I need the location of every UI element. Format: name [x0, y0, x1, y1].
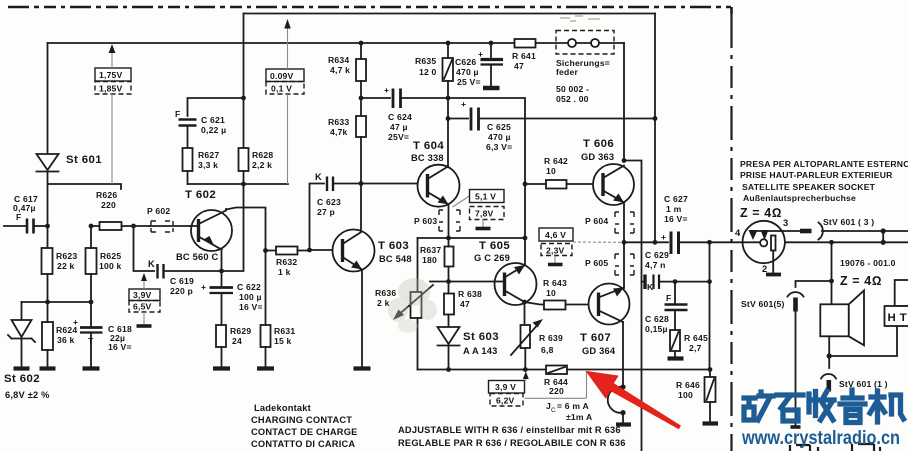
svg-text:R 643: R 643 [543, 278, 567, 288]
node: R642 tap on collector line [523, 182, 528, 187]
svg-text:BC 560 C: BC 560 C [176, 252, 219, 262]
svg-text:C 622: C 622 [237, 282, 261, 292]
svg-text:A A 143: A A 143 [463, 346, 497, 356]
svg-text:T 606: T 606 [583, 138, 614, 150]
ground loop [616, 422, 631, 426]
svg-text:0,1 V: 0,1 V [271, 84, 292, 94]
wire: St601 to measure node [48, 184, 122, 189]
chassis border top (dash-dot) [8, 7, 732, 14]
wire: output to right edge [785, 241, 908, 243]
node: C627 right junction [707, 240, 712, 245]
node: R635 bottom [446, 96, 451, 101]
wire: speaker to StV601(1) [828, 356, 830, 368]
socket Bu601 [743, 221, 785, 273]
svg-text:220 p: 220 p [170, 286, 193, 296]
wire: bottom rail y=369.5 [418, 369, 547, 371]
node: R634 bottom / C624 left [359, 96, 364, 101]
wire: T602 collector to R632 node [226, 208, 266, 251]
svg-text:+: + [461, 99, 466, 109]
wire: R627/R628 bottom rail [188, 183, 289, 185]
voltage box 0.09V / 0,1V [266, 19, 304, 184]
node: on T605 collector line [523, 236, 528, 241]
potentiometer R639 [511, 319, 543, 370]
scan noise top [560, 16, 600, 21]
resistor R633 [356, 98, 366, 184]
svg-text:G C 269: G C 269 [474, 253, 510, 263]
svg-text:R637: R637 [420, 245, 441, 255]
svg-text:27 p: 27 p [317, 207, 335, 217]
svg-text:F: F [175, 109, 180, 119]
plug StV601(3) [782, 223, 908, 240]
svg-text:2: 2 [762, 264, 767, 274]
node: St603 bottom on rail [446, 367, 451, 372]
capacitor C619 [148, 259, 222, 279]
node: T606 collector branch [622, 158, 627, 163]
ground socket pin2 [766, 273, 781, 277]
svg-text:16 V=: 16 V= [239, 302, 263, 312]
svg-text:Ladekontakt: Ladekontakt [254, 403, 311, 413]
wire: bias line y=302 [22, 301, 92, 303]
wire: P605 to T607 collector [623, 242, 625, 288]
svg-text:22 k: 22 k [57, 261, 75, 271]
svg-text:K: K [315, 172, 322, 182]
node: T605 emitter junction [522, 300, 527, 305]
resistor R644 [546, 366, 710, 375]
node: T602 emitter junction [219, 269, 224, 274]
node: R632 left junction [263, 248, 268, 253]
resistor R626 [91, 222, 150, 230]
svg-text:3: 3 [783, 218, 788, 228]
wire: C621 branch from node A drop [188, 98, 244, 116]
measure bracket for R644 [525, 371, 587, 398]
svg-text:H T: H T [888, 312, 908, 324]
ground R645 [668, 356, 684, 360]
svg-text:T 604: T 604 [413, 140, 444, 152]
svg-text:4,6 V: 4,6 V [545, 230, 566, 240]
svg-text:+: + [478, 49, 483, 59]
svg-text:R 646: R 646 [676, 380, 700, 390]
svg-text:7,8V: 7,8V [475, 209, 494, 219]
svg-text:180: 180 [422, 255, 437, 265]
svg-text:15 k: 15 k [274, 336, 292, 346]
svg-text:C 621: C 621 [201, 115, 225, 125]
wire: output line to C627 [624, 241, 668, 243]
svg-text:24: 24 [232, 336, 242, 346]
svg-text:0,22 µ: 0,22 µ [201, 125, 226, 135]
resistor R643 [525, 301, 600, 310]
svg-text:R626: R626 [96, 190, 117, 200]
node: emitter loop top [620, 384, 625, 389]
svg-text:GD 364: GD 364 [582, 346, 616, 356]
scan noise near R636 [388, 278, 437, 333]
svg-text:4,7 k: 4,7 k [330, 65, 350, 75]
wire: node A left drop to C621/R628 [243, 14, 245, 99]
svg-text:2,7: 2,7 [689, 343, 702, 353]
svg-text:StV 601 ( 3 ): StV 601 ( 3 ) [823, 217, 874, 227]
svg-text:1 k: 1 k [278, 267, 291, 277]
svg-text:+: + [384, 85, 389, 95]
svg-text:6,2V: 6,2V [496, 396, 515, 406]
node: R634 top on rail [359, 41, 364, 46]
svg-text:T: T [88, 336, 94, 346]
svg-text:C626: C626 [455, 57, 476, 67]
chassis border right (dash-dot) [730, 14, 732, 451]
svg-text:K: K [148, 259, 155, 269]
node: R623 bottom [45, 300, 50, 305]
svg-text:R 645: R 645 [684, 333, 708, 343]
svg-text:+: + [661, 232, 666, 242]
node: input/diode junction [45, 224, 50, 229]
svg-text:220: 220 [101, 200, 116, 210]
svg-text:470 µ: 470 µ [456, 67, 479, 77]
svg-text:±1m A: ±1m A [566, 412, 592, 422]
svg-text:St 602: St 602 [4, 373, 40, 385]
svg-text:C 628: C 628 [645, 314, 669, 324]
red annotation arrow [585, 371, 681, 430]
resistor R624 [42, 302, 53, 367]
ground R631 [257, 366, 274, 370]
capacitor C624 [361, 85, 448, 108]
fuse spring contacts (Sicherungsfeder) [556, 31, 624, 55]
svg-text:4,7k: 4,7k [330, 127, 348, 137]
svg-text:R633: R633 [328, 117, 349, 127]
wire: feedback stub from node A [654, 14, 656, 243]
svg-text:Z = 4Ω: Z = 4Ω [840, 274, 882, 288]
svg-text:PRESA PER ALTOPARLANTE ESTERNO: PRESA PER ALTOPARLANTE ESTERNO [740, 159, 908, 169]
svg-text:1 m: 1 m [666, 204, 682, 214]
svg-text:R631: R631 [274, 326, 295, 336]
svg-text:CHARGING CONTACT: CHARGING CONTACT [251, 415, 352, 425]
svg-text:R629: R629 [230, 326, 251, 336]
node: R635 top on rail [446, 41, 451, 46]
resistor R625 [86, 226, 97, 302]
resistor R635 [443, 43, 454, 98]
capacitor C625 [448, 99, 655, 131]
node: R625 bottom [89, 300, 94, 305]
capacitor C621 [175, 109, 197, 148]
node: feedback/C625 junction [653, 116, 658, 121]
svg-text:feder: feder [556, 67, 578, 77]
svg-text:0,15µ: 0,15µ [645, 324, 668, 334]
contact P602 [150, 221, 190, 232]
transistor T603 [310, 230, 375, 368]
svg-text:C 625: C 625 [487, 122, 511, 132]
svg-text:ADJUSTABLE WITH R 636 / einst: ADJUSTABLE WITH R 636 / einstellbar mit … [398, 425, 621, 435]
svg-text:GD 363: GD 363 [581, 152, 614, 162]
node: loop bottom [620, 410, 625, 423]
ground R629 [213, 366, 230, 370]
watermark url [741, 427, 900, 449]
svg-text:3,3 k: 3,3 k [198, 160, 218, 170]
wire: speaker feed down [831, 242, 833, 304]
svg-text:P 604: P 604 [585, 216, 608, 226]
svg-text:50 002 -: 50 002 - [556, 84, 589, 94]
svg-text:T 605: T 605 [479, 240, 510, 252]
svg-text:19076 - 001.0: 19076 - 001.0 [840, 258, 896, 268]
wire: rail corner left drop [47, 43, 49, 154]
svg-text:6,8: 6,8 [541, 345, 554, 355]
transistor T607 [589, 284, 630, 388]
svg-text:R636: R636 [375, 288, 396, 298]
svg-text:C 629: C 629 [645, 250, 669, 260]
svg-text:BC 548: BC 548 [379, 254, 412, 264]
node: C629 right [707, 279, 712, 284]
resistor R646 [705, 370, 716, 423]
svg-text:C 627: C 627 [664, 194, 688, 204]
svg-text:P 602: P 602 [147, 206, 170, 216]
ground St602 [14, 366, 30, 370]
resistor R645 [670, 330, 680, 357]
watermark logo (drawn glyphs) [744, 390, 904, 423]
svg-text:= 6 m A: = 6 m A [557, 401, 589, 411]
svg-text:2 k: 2 k [377, 298, 390, 308]
wire: P603 junction line [418, 237, 526, 239]
svg-text:47: 47 [460, 299, 470, 309]
node: T605 base node [446, 279, 451, 284]
svg-text:C: C [551, 407, 556, 414]
wire: T605 base line [430, 281, 495, 283]
resistor R628 [239, 98, 249, 184]
svg-text:5,1 V: 5,1 V [475, 192, 496, 202]
svg-text:1,85V: 1,85V [99, 84, 123, 94]
voltage box 3,9V / 6,5V [129, 273, 160, 326]
ground R646 [703, 421, 719, 425]
wire: tap to StV601(5) [796, 281, 832, 287]
svg-text:F: F [666, 293, 671, 303]
wire: C623 left leg [310, 184, 325, 251]
measuring loop [608, 387, 623, 413]
transistor T606 [593, 164, 634, 242]
node: output midpoint [622, 240, 627, 245]
node: T603 base junction [307, 248, 312, 253]
wire: drop to St602 [21, 302, 23, 320]
diode St602 (zener) [8, 320, 35, 367]
svg-text:C 619: C 619 [170, 276, 194, 286]
ground C618 [83, 366, 100, 370]
node: C626 top on rail [489, 41, 494, 46]
wire: T604 collector drop [447, 98, 449, 167]
svg-text:R 641: R 641 [512, 51, 536, 61]
svg-text:REGLABLE PAR R 636 / REGOLAB: REGLABLE PAR R 636 / REGOLABILE CON R 63… [398, 438, 626, 448]
resistor R642 [525, 180, 604, 189]
svg-text:1,75V: 1,75V [99, 70, 123, 80]
resistor R627 [183, 148, 193, 184]
svg-text:36 k: 36 k [57, 335, 75, 345]
potentiometer R636 [393, 238, 433, 370]
plug StV601(5) [788, 292, 804, 427]
svg-text:P 605: P 605 [585, 258, 608, 268]
svg-text:10: 10 [546, 288, 556, 298]
svg-text:R 639: R 639 [539, 333, 563, 343]
capacitor C628 [665, 282, 688, 330]
svg-text:R 642: R 642 [544, 156, 568, 166]
node: R626 right / C619 tap [131, 224, 136, 229]
contact P603 [439, 210, 460, 231]
node A: feedback line top [244, 13, 656, 15]
svg-text:0.09V: 0.09V [270, 71, 294, 81]
capacitor C622 [201, 271, 233, 325]
svg-text:StV 601 (1 ): StV 601 (1 ) [839, 379, 888, 389]
capacitor C627 [661, 232, 743, 255]
svg-text:4: 4 [735, 228, 741, 238]
voltage box 5,1V / 7,8V [453, 190, 505, 229]
svg-text:3,9V: 3,9V [133, 290, 152, 300]
svg-text:47 µ: 47 µ [390, 122, 408, 132]
svg-text:Z = 4Ω: Z = 4Ω [740, 206, 782, 220]
svg-text:R628: R628 [252, 150, 273, 160]
wire: supply rail y=43 [48, 42, 516, 44]
resistor R634 [356, 43, 366, 98]
node: R628 bottom [241, 182, 246, 187]
svg-text:6,5V: 6,5V [133, 302, 152, 312]
svg-text:47: 47 [514, 61, 524, 71]
wire: speaker bottom [827, 326, 897, 359]
capacitor C629 [642, 275, 710, 293]
node: StV601(3) junction [881, 228, 886, 233]
wire: C624 line to right corner [448, 98, 525, 265]
voltage box 1,75V / 1,85V [95, 44, 131, 184]
bottom notes Ladekontakt [251, 403, 358, 449]
svg-text:25 V=: 25 V= [457, 77, 481, 87]
speaker socket texts [740, 159, 908, 203]
node: R625 top on signal line [89, 224, 94, 229]
resistor R637 [445, 238, 454, 282]
svg-text:R625: R625 [100, 251, 121, 261]
svg-text:R 638: R 638 [458, 289, 482, 299]
ground R624 [40, 366, 56, 370]
svg-text:CONTACT DE CHARGE: CONTACT DE CHARGE [251, 427, 358, 437]
capacitor C618 [73, 302, 103, 367]
transistor T604 [418, 165, 460, 238]
svg-text:100 k: 100 k [99, 261, 122, 271]
svg-text:R634: R634 [328, 55, 349, 65]
transistor T605 [495, 263, 537, 325]
voltage box 4,6V / 2,3V [539, 228, 621, 265]
diode St601 [37, 154, 59, 184]
node: T604 base node [359, 181, 364, 186]
plug StV601(1) [821, 374, 836, 392]
transistor T602 [190, 209, 232, 271]
svg-text:R632: R632 [276, 257, 297, 267]
node: speaker branch [829, 240, 834, 245]
node: StV601(5) tap [829, 279, 834, 284]
node: R646 top on rail [708, 367, 713, 372]
svg-text:2,2 k: 2,2 k [252, 160, 272, 170]
capacitor C623 [315, 172, 362, 191]
svg-text:Außenlautsprecherbuchse: Außenlautsprecherbuchse [743, 193, 856, 203]
svg-text:6,3 V=: 6,3 V= [486, 142, 512, 152]
ground T603 emitter [354, 366, 371, 370]
wire: branch to output dropper [624, 161, 642, 451]
svg-text:P 603: P 603 [414, 216, 437, 226]
svg-text:T 607: T 607 [580, 332, 611, 344]
node: R639 bottom on rail [523, 367, 528, 372]
capacitor C617 [4, 219, 48, 234]
texts 19076 / Z=4 [840, 258, 896, 288]
svg-text:12 0: 12 0 [419, 67, 437, 77]
svg-text:+: + [73, 317, 78, 327]
node: C625 left [446, 116, 451, 121]
svg-text:3,9 V: 3,9 V [495, 382, 516, 392]
contact P605 [615, 254, 634, 275]
svg-text:R623: R623 [56, 251, 77, 261]
node: feedback to output line [653, 240, 658, 245]
svg-text:K: K [647, 282, 654, 292]
capacitor C626 [478, 43, 503, 86]
bottom notes adjustable [398, 425, 626, 448]
box HT [885, 306, 908, 326]
svg-text:CONTATTO DI CARICA: CONTATTO DI CARICA [251, 439, 355, 449]
node: C621/R628 top junction [241, 96, 246, 101]
node: P603 bottom junction [446, 236, 451, 241]
svg-text:100 µ: 100 µ [239, 292, 262, 302]
svg-text:R635: R635 [415, 56, 436, 66]
diode St603 [438, 327, 460, 370]
contact P604 [615, 212, 634, 233]
resistor R638 [444, 282, 454, 328]
svg-text:10: 10 [546, 166, 556, 176]
svg-text:SATELLITE SPEAKER SOCKET: SATELLITE SPEAKER SOCKET [742, 182, 876, 192]
wire: supply drop to T606 [623, 43, 625, 161]
bottom cut-off connector marks [790, 444, 880, 451]
svg-text:BC 338: BC 338 [411, 153, 444, 163]
svg-text:4,7 n: 4,7 n [645, 260, 666, 270]
svg-text:6,8V ±2 %: 6,8V ±2 % [5, 390, 50, 400]
svg-text:St 603: St 603 [463, 331, 499, 343]
svg-text:www.crystalradio.cn: www.crystalradio.cn [741, 427, 900, 449]
svg-text:+: + [201, 282, 206, 292]
box tweeter [895, 280, 908, 306]
svg-text:100: 100 [678, 390, 693, 400]
svg-text:220: 220 [549, 386, 564, 396]
svg-text:C 624: C 624 [388, 112, 412, 122]
wire: C619 tap down [134, 226, 155, 271]
svg-text:25V=: 25V= [388, 132, 409, 142]
svg-text:PRISE HAUT-PARLEUR EXTERIEUR: PRISE HAUT-PARLEUR EXTERIEUR [740, 170, 893, 180]
resistor R623 [42, 248, 53, 302]
svg-text:T 602: T 602 [185, 189, 216, 201]
svg-text:2,3V: 2,3V [546, 246, 565, 256]
resistor R631 [261, 251, 271, 368]
svg-text:052 . 00: 052 . 00 [556, 94, 589, 104]
svg-text:F: F [16, 212, 21, 222]
resistor R632 [266, 247, 310, 255]
ground C626 [483, 86, 500, 91]
wire: drop to C629/R646 [709, 242, 711, 369]
node: output link [881, 231, 886, 245]
wire: emitter feedback drop x=243.5 [222, 184, 244, 271]
node: C628 tap [673, 279, 678, 284]
wire: input line down left column [47, 184, 49, 248]
resistor R629 [216, 325, 226, 367]
svg-text:16 V=: 16 V= [108, 342, 132, 352]
svg-text:C 623: C 623 [317, 197, 341, 207]
svg-text:470 µ: 470 µ [488, 132, 511, 142]
voltage box 3,9V / 6,2V [489, 372, 529, 407]
svg-text:T 603: T 603 [378, 240, 409, 252]
svg-text:R627: R627 [198, 150, 219, 160]
resistor R641 [515, 39, 569, 48]
svg-text:StV 601(5): StV 601(5) [741, 299, 785, 309]
svg-text:St 601: St 601 [66, 154, 102, 166]
svg-text:16 V=: 16 V= [664, 214, 688, 224]
speaker LS [820, 290, 864, 345]
wire: base line to T604 [361, 184, 427, 230]
